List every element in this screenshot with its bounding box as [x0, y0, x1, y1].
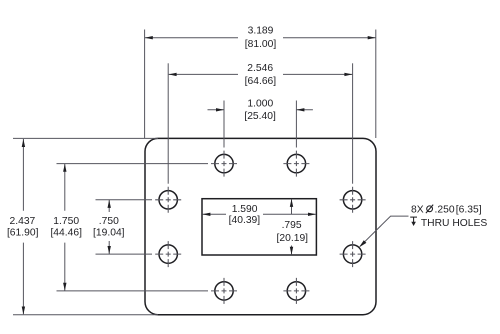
dim .750 top arrowhead [108, 200, 111, 208]
hole F left lower [159, 245, 177, 263]
svg-text:.750: .750 [99, 216, 119, 227]
svg-text:[61.90]: [61.90] [7, 227, 39, 238]
dim 1.750 extension line top [57, 163, 209, 165]
svg-text:.795: .795 [282, 220, 302, 231]
hole C bottom-left [215, 282, 233, 300]
dim 2.546 extension line left [167, 63, 169, 183]
dim 1.000 extension line right [295, 101, 297, 148]
dim 1.000 left arrowhead [216, 108, 224, 111]
svg-text:1.590: 1.590 [232, 204, 258, 215]
dim 1.750 top arrowhead [63, 164, 66, 172]
svg-text:.250: .250 [435, 204, 455, 215]
diameter symbol [426, 205, 433, 214]
hole H right lower [343, 245, 361, 263]
svg-text:1.750: 1.750 [53, 216, 79, 227]
dim 2.437 extension line bottom [13, 314, 158, 316]
dim 1.000 right arrowhead [296, 108, 304, 111]
hole B centerlines [283, 151, 309, 177]
hole D centerlines [283, 278, 309, 304]
svg-text:2.546: 2.546 [247, 63, 273, 74]
dim 1.750 extension line bottom [57, 290, 209, 292]
dim 3.189 extension line right [375, 30, 377, 139]
hole G centerlines [340, 187, 366, 213]
hole A centerlines [211, 151, 237, 177]
waveguide aperture opening [202, 199, 316, 255]
hole A top-left [215, 154, 233, 172]
hole D bottom-right [287, 282, 305, 300]
hole G right upper [343, 191, 361, 209]
hole B top-right [287, 154, 305, 172]
dim .795 dimension line [291, 199, 293, 255]
svg-text:[19.04]: [19.04] [93, 227, 125, 238]
depth symbol arrowhead [411, 222, 416, 226]
dim 1.590 dimension line [202, 213, 316, 215]
svg-text:3.189: 3.189 [248, 26, 274, 37]
leader line to hole H [360, 216, 408, 246]
dim .795 bottom arrowhead [290, 247, 293, 255]
svg-text:8X: 8X [411, 204, 424, 215]
dim 2.546 dimension line [169, 73, 353, 75]
dim .750 dimension line [108, 200, 110, 254]
dim 1.590 left arrowhead [202, 213, 210, 216]
dim 2.437 top arrowhead [22, 139, 25, 147]
dim .795 top arrowhead [290, 199, 293, 207]
dim 2.546 extension line right [352, 63, 354, 183]
dim 2.437 dimension line [22, 139, 24, 314]
dim 1.000 extension line left [223, 101, 225, 148]
svg-text:[81.00]: [81.00] [245, 39, 277, 50]
svg-text:2.437: 2.437 [10, 216, 36, 227]
dim .750 extension line top [96, 199, 153, 201]
dim 3.189 left arrowhead [145, 36, 153, 39]
depth symbol [410, 217, 417, 222]
leader arrowhead [359, 240, 366, 247]
svg-text:[6.35]: [6.35] [456, 204, 482, 215]
dim .750 bottom arrowhead [108, 246, 111, 254]
dim 1.000 left arrow tail [208, 109, 225, 111]
dim 1.750 dimension line [64, 164, 66, 291]
dim 2.437 extension line top [13, 137, 158, 139]
svg-text:[44.46]: [44.46] [50, 227, 82, 238]
dim 1.000 right arrow tail [296, 109, 313, 111]
dim 2.546 left arrowhead [169, 73, 177, 76]
dim .750 extension line bottom [96, 253, 153, 255]
hole H centerlines [340, 241, 366, 267]
dim 3.189 right arrowhead [368, 36, 376, 39]
dim 2.437 bottom arrowhead [22, 307, 25, 315]
svg-text:[64.66]: [64.66] [245, 76, 277, 87]
svg-text:[25.40]: [25.40] [244, 111, 276, 122]
svg-text:[20.19]: [20.19] [277, 233, 309, 244]
flange plate outline [145, 138, 376, 314]
svg-text:1.000: 1.000 [247, 99, 273, 110]
hole E left upper [159, 191, 177, 209]
hole C centerlines [211, 278, 237, 304]
dim 3.189 dimension line [145, 37, 376, 39]
hole F centerlines [155, 241, 181, 267]
dim 1.590 right arrowhead [308, 213, 316, 216]
svg-text:[40.39]: [40.39] [229, 215, 261, 226]
hole E centerlines [155, 187, 181, 213]
dim 3.189 extension line left [144, 30, 146, 139]
dim 2.546 right arrowhead [344, 73, 352, 76]
dim 1.750 bottom arrowhead [63, 283, 66, 291]
svg-text:THRU HOLES: THRU HOLES [421, 218, 487, 229]
